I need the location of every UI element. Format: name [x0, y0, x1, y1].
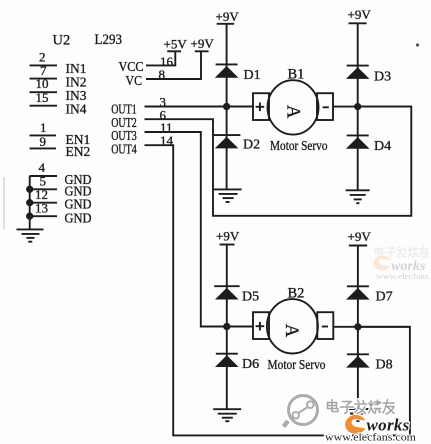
- svg-text:D4: D4: [374, 139, 391, 154]
- svg-text:1: 1: [40, 120, 47, 135]
- watermark orange e logo: [345, 415, 365, 434]
- label IN4: [66, 102, 87, 117]
- diode D4: [346, 135, 370, 148]
- pin number 12: [35, 187, 48, 202]
- pin number 10: [36, 76, 49, 91]
- label IN1: [66, 61, 87, 76]
- pin 15 stub (IN4): [30, 105, 58, 107]
- svg-text:L293: L293: [95, 32, 123, 48]
- label OUT2: [111, 115, 137, 130]
- pin number 7: [40, 63, 47, 78]
- pin 3 wire OUT1 to motor B1 + terminal: [145, 106, 254, 108]
- svg-text:+9V: +9V: [216, 229, 240, 244]
- IC U2 reference designator: [53, 33, 71, 49]
- ground symbol (below D2): [214, 189, 242, 202]
- pin 1 stub (EN1): [30, 134, 57, 136]
- pin 11 wire OUT3 to motor B2 + terminal: [145, 132, 254, 327]
- wire B1 right vertical rail: [357, 23, 359, 190]
- svg-text:IN2: IN2: [66, 74, 87, 89]
- label GND (pin 4): [65, 172, 92, 187]
- power symbol +9V (B1 left): [217, 23, 234, 25]
- svg-text:15: 15: [36, 90, 49, 105]
- pin 5 stub (GND): [30, 188, 58, 190]
- motor B2 + sign: [256, 322, 265, 331]
- power symbol +9V (B2 right): [349, 245, 367, 247]
- svg-text:D2: D2: [243, 138, 260, 153]
- motor B2 rotated A marking: [281, 324, 301, 338]
- pin 12 stub (GND): [30, 202, 58, 204]
- svg-text:VCC: VCC: [119, 59, 144, 74]
- motor B1 body circle: [268, 80, 319, 134]
- svg-text:Motor Servo: Motor Servo: [268, 358, 326, 373]
- label VCC: [119, 59, 144, 74]
- diode D5: [214, 286, 239, 299]
- motor B2 body circle: [267, 299, 318, 353]
- label IN3: [66, 88, 87, 103]
- motor B1 + sign: [256, 103, 265, 112]
- label OUT4: [111, 141, 137, 156]
- pin number 11: [160, 120, 173, 135]
- svg-text:U2: U2: [53, 33, 71, 49]
- svg-text:+9V: +9V: [348, 229, 372, 244]
- wire B2 - terminal to loop junction: [333, 326, 410, 328]
- svg-text:Motor Servo: Motor Servo: [270, 139, 328, 154]
- svg-text:D7: D7: [376, 290, 393, 305]
- label EN2: [66, 144, 91, 159]
- IC value label L293: [95, 32, 123, 48]
- pin number 14: [160, 133, 174, 148]
- svg-text:www.elecfans.com: www.elecfans.com: [325, 432, 416, 444]
- junction node OUT1 / B1 left: [224, 104, 229, 109]
- svg-text:GND: GND: [65, 211, 92, 226]
- svg-text:D6: D6: [242, 357, 259, 372]
- svg-text:A: A: [281, 324, 301, 338]
- ground symbol (below D6): [213, 409, 241, 421]
- pin number 6: [160, 107, 167, 122]
- svg-text:EN2: EN2: [66, 144, 91, 159]
- svg-text:VC: VC: [126, 73, 143, 88]
- power symbol +9V (IC VC): [195, 50, 209, 52]
- svg-text:+9V: +9V: [216, 9, 240, 24]
- motor B2 - sign: [322, 326, 328, 328]
- junction dot GND bus / pin 5: [27, 187, 32, 192]
- pin 10 stub (IN3): [30, 91, 58, 93]
- watermark (site logo, bottom right): [284, 396, 417, 444]
- svg-text:OUT4: OUT4: [111, 141, 137, 156]
- ground symbol (below D4): [346, 190, 370, 203]
- pin 16 stub (VCC) wire to +5V: [146, 51, 175, 65]
- pin 9 stub (EN2): [30, 147, 57, 149]
- pin number 8: [159, 67, 166, 82]
- label Motor Servo (B1): [270, 139, 328, 154]
- pin 13 stub (GND): [30, 215, 58, 217]
- svg-text:D1: D1: [244, 68, 261, 83]
- pin number 3: [160, 94, 167, 109]
- motor B2 + terminal box: [253, 312, 269, 339]
- diode D7: [346, 286, 370, 299]
- svg-text:D3: D3: [374, 70, 391, 85]
- pin 7 stub (IN2): [30, 78, 58, 80]
- pin number 15: [36, 90, 49, 105]
- label IN2: [66, 74, 87, 89]
- svg-text:IN4: IN4: [66, 102, 87, 117]
- power symbol +9V (B1 right): [349, 22, 367, 24]
- svg-text:9: 9: [40, 134, 47, 149]
- pin 2 stub (IN1): [30, 64, 58, 66]
- scan artifact dot top right: [416, 43, 419, 46]
- label EN1: [66, 132, 91, 147]
- wire B2 left vertical rail: [226, 245, 228, 410]
- junction node B2 - / loop: [355, 324, 360, 329]
- diode D2: [214, 135, 241, 148]
- pin 14 wire OUT4 loop to motor B2 - side: [145, 145, 410, 435]
- label GND (pin 12): [65, 197, 92, 212]
- watermark (faint copy, middle right): [374, 246, 431, 281]
- junction dot GND bus / pin 13: [27, 214, 32, 219]
- wire GND bus vertical: [29, 176, 31, 229]
- wire B1 left vertical rail: [226, 24, 228, 190]
- label Motor Servo (B2): [268, 358, 326, 373]
- power symbol +5V: [167, 50, 181, 52]
- power symbol +9V (B2 left): [220, 244, 235, 246]
- svg-text:D5: D5: [242, 289, 259, 304]
- motor B1 - sign: [323, 106, 329, 108]
- diode D8: [346, 354, 370, 367]
- svg-text:D8: D8: [376, 357, 393, 372]
- svg-text:+9V: +9V: [348, 7, 372, 22]
- svg-text:+5V: +5V: [164, 37, 188, 52]
- svg-text:10: 10: [36, 76, 49, 91]
- junction node OUT3 / B2 left: [224, 324, 229, 329]
- junction dot GND bus / pin 12: [27, 200, 32, 205]
- label GND (pin 13): [65, 211, 92, 226]
- label GND (pin 5): [65, 184, 92, 199]
- pin 4 stub (GND): [30, 175, 58, 177]
- svg-text:13: 13: [35, 200, 48, 215]
- watermark hanzi text: [328, 400, 395, 415]
- wire B2 right vertical rail: [357, 246, 359, 410]
- svg-text:GND: GND: [65, 197, 92, 212]
- pin 6 wire OUT2 loop to motor B1 - side: [145, 107, 412, 216]
- scan artifact left edge: [3, 177, 5, 229]
- pin number 1: [40, 120, 47, 135]
- ground symbol (below D8): [346, 409, 370, 421]
- svg-text:8: 8: [159, 67, 166, 82]
- svg-text:+9V: +9V: [191, 36, 215, 51]
- ground symbol (IC GND): [17, 229, 44, 241]
- wire B1 - terminal to loop junction: [333, 106, 411, 108]
- label OUT1: [111, 102, 137, 117]
- pin number 4: [39, 160, 46, 175]
- watermark magnifier icon: [289, 396, 318, 425]
- diode D1: [215, 64, 239, 77]
- pin 8 stub (VC) wire to +9V: [146, 51, 201, 79]
- pin number 2: [39, 50, 46, 65]
- svg-text:14: 14: [160, 133, 174, 148]
- motor B2 - terminal box: [317, 312, 333, 339]
- junction node B1 - / loop: [355, 104, 360, 109]
- motor B2 reference label: [288, 285, 305, 301]
- label VC: [126, 73, 143, 88]
- motor B1 reference label: [288, 67, 305, 83]
- diode D3: [346, 66, 370, 79]
- label OUT3: [111, 128, 137, 143]
- pin number 5: [40, 174, 47, 189]
- svg-text:A: A: [282, 105, 302, 119]
- diode D6: [215, 354, 239, 367]
- motor B1 - terminal box: [317, 93, 333, 120]
- pin number 16: [160, 54, 174, 69]
- motor B1 rotated A marking: [282, 105, 302, 119]
- pin number 13: [35, 200, 48, 215]
- pin number 9: [40, 134, 47, 149]
- motor B1 + terminal box: [253, 93, 269, 120]
